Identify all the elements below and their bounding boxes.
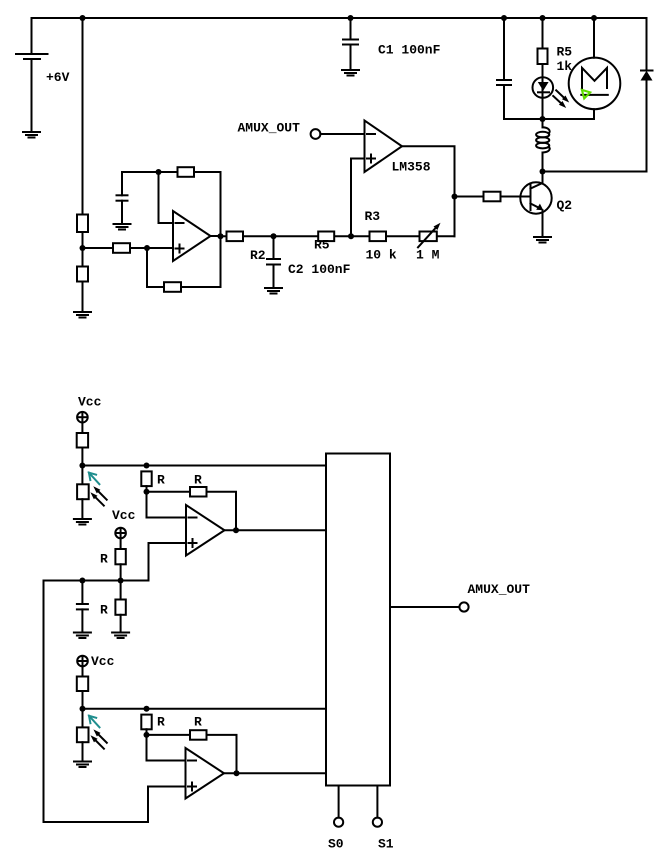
op-amp U3 — [186, 505, 225, 556]
wire diode to collector — [543, 171, 647, 173]
node op2 minus — [144, 732, 150, 738]
node U2 output — [218, 233, 224, 239]
svg-text:Vcc: Vcc — [91, 654, 115, 669]
terminal S1 — [373, 786, 382, 827]
wire — [273, 265, 275, 288]
wire mux input row2 — [225, 529, 327, 531]
resistor R in op1 — [141, 471, 151, 486]
motor polarity mark (green) — [582, 90, 590, 99]
wire — [82, 232, 84, 267]
supply Vcc 1 — [77, 412, 88, 433]
resistor R3 10k — [370, 232, 387, 242]
wire motor bottom — [593, 109, 595, 119]
resistor divider lower — [77, 267, 88, 282]
node collector — [540, 169, 546, 175]
terminal S0 — [334, 786, 343, 827]
svg-text:1k: 1k — [557, 59, 573, 74]
node base resistor — [452, 194, 458, 200]
svg-text:R5: R5 — [557, 45, 573, 60]
photoresistor LDR1 — [77, 484, 89, 499]
svg-text:LM358: LM358 — [392, 159, 431, 174]
node cap2b — [79, 578, 85, 584]
wire divider trunk — [82, 18, 84, 215]
svg-text:R: R — [100, 602, 108, 617]
ground divider — [74, 312, 91, 318]
svg-text:R2: R2 — [250, 248, 266, 263]
op-amp U2 buffer — [173, 211, 211, 261]
wire divider2 node rail — [44, 580, 149, 582]
node op2 out — [234, 770, 240, 776]
resistor bottom feedback — [164, 282, 181, 292]
inductor L1 — [536, 119, 550, 172]
ground Q2 emitter — [534, 237, 551, 243]
transistor Q2 — [520, 172, 551, 237]
svg-text:Vcc: Vcc — [78, 394, 102, 409]
wire — [82, 691, 84, 727]
ground ref filter — [74, 633, 91, 639]
node LDR2 — [80, 706, 86, 712]
resistor R feedback op1 — [190, 487, 207, 497]
resistor R lower divider2 — [115, 600, 125, 615]
wire mux input row3 — [83, 708, 327, 710]
node snubber cap — [501, 15, 507, 21]
arrow light LDR2 a — [93, 729, 106, 742]
svg-text:R: R — [157, 715, 165, 730]
ground LDR1 — [74, 519, 91, 525]
svg-text:+6V: +6V — [46, 70, 70, 85]
svg-text:Vcc: Vcc — [112, 508, 136, 523]
svg-text:C2 100nF: C2 100nF — [288, 262, 351, 277]
wire minus drop — [159, 172, 174, 223]
battery +6V — [16, 18, 48, 131]
arrow 1M wiper — [418, 223, 441, 248]
wire bottom feedback — [147, 248, 221, 287]
resistor divider upper — [77, 215, 88, 233]
wire op2 feedback — [147, 735, 237, 773]
node LDR1 — [79, 463, 85, 469]
supply Vcc 2 — [115, 528, 126, 549]
LED D1 — [533, 77, 554, 98]
resistor LDR1 series — [77, 433, 88, 448]
motor M1 — [569, 58, 621, 110]
svg-text:AMUX_OUT: AMUX_OUT — [468, 582, 531, 597]
wire AMUX_OUT output — [390, 602, 469, 611]
capacitor C2 — [273, 236, 275, 259]
wire U2 + input — [83, 247, 174, 249]
capacitor ref filter — [81, 581, 83, 605]
LED emission arrow 2 — [553, 96, 566, 108]
resistor R in op2 — [141, 715, 151, 730]
arrow teal LDR2 — [89, 716, 100, 728]
node R top op1 — [144, 463, 150, 469]
ground LDR2 — [74, 762, 91, 768]
wire U1 + input — [351, 159, 365, 237]
svg-text:10 k: 10 k — [366, 247, 397, 262]
wire — [81, 609, 83, 631]
wire — [120, 615, 122, 632]
wire — [350, 45, 352, 70]
wire base — [455, 196, 531, 198]
svg-text:S0: S0 — [328, 837, 344, 852]
resistor plus input — [113, 243, 130, 253]
wire — [81, 499, 83, 518]
wire op2 minus — [147, 729, 186, 760]
LED emission arrow 1 — [556, 90, 569, 102]
ground cap — [114, 224, 131, 230]
wire mux input row1 — [82, 465, 326, 467]
wire U1 output — [402, 146, 455, 236]
node minus branch — [156, 169, 162, 175]
node op1 out — [233, 527, 239, 533]
arrow light LDR1 a — [93, 486, 106, 499]
terminal AMUX_OUT input — [311, 129, 365, 139]
wire main lowpass rail — [221, 235, 455, 237]
wire — [82, 742, 84, 760]
diode D2 freewheel — [641, 18, 653, 172]
node divider mid — [80, 245, 86, 251]
node plus pickoff — [348, 233, 354, 239]
supply Vcc 3 — [77, 656, 88, 677]
arrow teal LDR1 — [89, 473, 100, 485]
capacitor snubber — [503, 18, 505, 80]
wire apex to node — [211, 235, 221, 237]
svg-text:AMUX_OUT: AMUX_OUT — [238, 120, 301, 135]
arrow light LDR1 b — [90, 492, 103, 505]
ground divider2 — [112, 633, 129, 639]
analog mux U5 — [326, 454, 390, 786]
node motor — [591, 15, 597, 21]
resistor base box — [484, 192, 501, 202]
resistor R feedback op2 — [190, 730, 207, 740]
wire — [120, 564, 122, 599]
op-amp U4 — [186, 748, 225, 799]
resistor R upper divider2 — [115, 549, 125, 564]
resistor variable 1M — [420, 232, 437, 242]
node C1 — [348, 15, 354, 21]
svg-text:1 M: 1 M — [416, 247, 440, 262]
photoresistor LDR2 — [77, 727, 89, 742]
svg-text:R5: R5 — [314, 237, 330, 252]
resistor R2 — [227, 232, 244, 242]
node plus input — [144, 245, 150, 251]
svg-text:R: R — [100, 552, 108, 567]
op-amp U1 LM358 — [365, 121, 403, 173]
node C2 — [271, 233, 277, 239]
arrow light LDR2 b — [91, 735, 104, 748]
ground battery — [23, 132, 40, 138]
wire motor top — [593, 18, 595, 58]
wire op2 plus loop — [44, 581, 186, 823]
wire — [82, 282, 84, 312]
wire op1 plus — [149, 543, 187, 581]
resistor R5 series — [318, 232, 334, 242]
svg-text:R: R — [194, 472, 202, 487]
svg-text:R: R — [157, 472, 165, 487]
svg-text:Q2: Q2 — [557, 198, 573, 213]
node op1 minus — [144, 489, 150, 495]
ground C1 — [342, 70, 359, 76]
wire U2 right vertical — [220, 172, 222, 287]
wire — [81, 448, 83, 485]
capacitor C1 — [350, 18, 352, 40]
wire — [542, 64, 544, 119]
resistor LDR2 series — [77, 677, 88, 692]
node top rail / divider trunk — [80, 15, 86, 21]
svg-text:S1: S1 — [378, 837, 394, 852]
wire — [504, 85, 594, 119]
wire — [121, 201, 123, 223]
wire R5 branch — [542, 18, 544, 49]
svg-text:C1 100nF: C1 100nF — [378, 43, 441, 58]
ground C2 — [265, 288, 282, 294]
capacitor minus filter — [121, 172, 123, 195]
node divider2 — [118, 578, 124, 584]
wire op1 minus — [147, 486, 187, 517]
node R top op2 — [144, 706, 150, 712]
wire top power rail — [32, 17, 647, 19]
node R5 branch — [540, 15, 546, 21]
wire op1 feedback — [147, 492, 237, 530]
svg-text:R3: R3 — [365, 209, 381, 224]
resistor top feedback — [178, 167, 195, 177]
svg-text:R: R — [194, 715, 202, 730]
resistor R5 1k — [538, 49, 548, 65]
node LED/motor bottom — [540, 116, 546, 122]
wire top feedback — [122, 171, 221, 173]
wire mux input row4 — [224, 772, 326, 774]
